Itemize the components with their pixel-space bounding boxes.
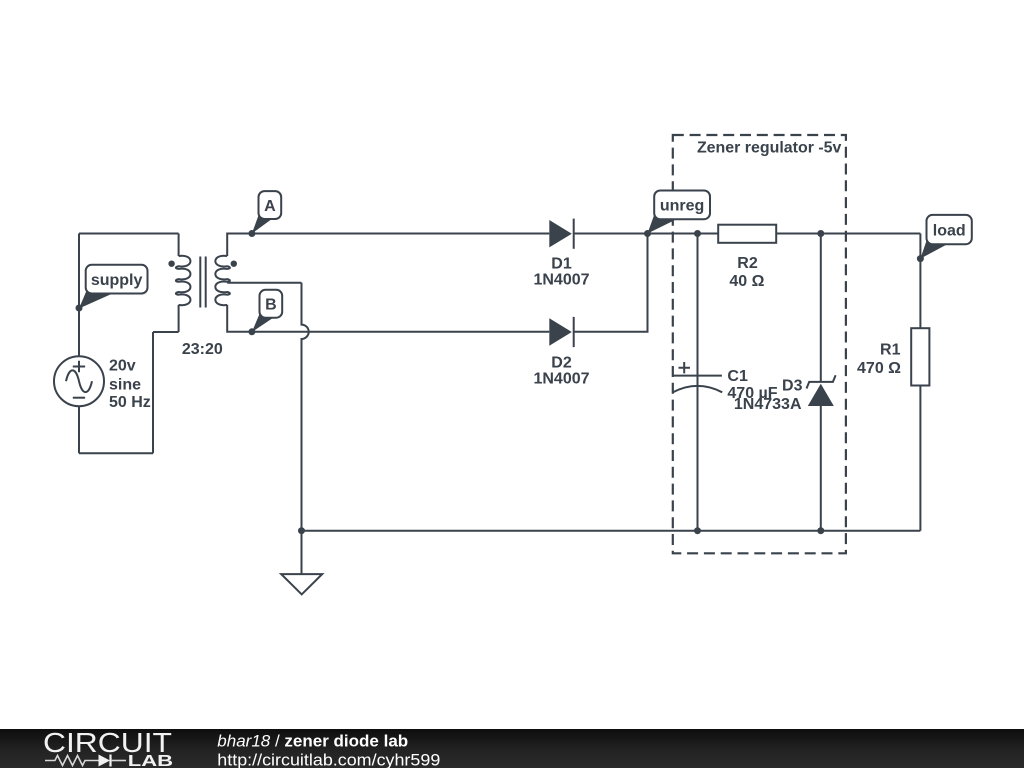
svg-text:D3: D3 — [782, 378, 803, 395]
node load — [917, 215, 972, 262]
diode D2 — [533, 317, 589, 388]
svg-text:R1: R1 — [880, 341, 901, 358]
wire D2 cathode up to unreg — [574, 234, 648, 332]
svg-text:20v: 20v — [109, 357, 136, 374]
wire step vertical — [152, 332, 154, 453]
wire center tap down with hop — [302, 283, 309, 531]
wire D1 cathode to unreg — [574, 233, 648, 235]
footer bar — [0, 727, 1024, 770]
logo diode — [99, 755, 111, 767]
svg-text:1N4007: 1N4007 — [533, 271, 589, 288]
zener diode D3 — [734, 234, 836, 535]
wire supply left lower — [78, 406, 80, 453]
svg-text:unreg: unreg — [660, 198, 704, 215]
svg-text:1N4733A: 1N4733A — [734, 396, 802, 413]
diode D1 — [533, 219, 589, 289]
wire unreg to R2 — [648, 233, 719, 235]
transformer T1 — [168, 234, 237, 359]
svg-text:C1: C1 — [727, 368, 748, 385]
svg-text:1N4007: 1N4007 — [533, 370, 589, 387]
node B — [248, 290, 282, 336]
svg-text:R2: R2 — [737, 255, 758, 272]
phase dot secondary — [231, 261, 237, 267]
svg-text:50 Hz: 50 Hz — [109, 394, 151, 411]
wire secondary top to A — [227, 234, 549, 257]
ground — [281, 527, 322, 594]
junction D3 top — [817, 230, 824, 237]
secondary coil — [215, 256, 230, 305]
node A — [248, 191, 281, 237]
svg-text:load: load — [933, 222, 966, 239]
svg-text:sine: sine — [109, 376, 141, 393]
svg-text:40 Ω: 40 Ω — [729, 273, 764, 290]
wire R2 to corner — [776, 233, 920, 235]
primary top stub — [178, 234, 180, 257]
wire corner down to R1 — [919, 234, 921, 329]
svg-text:supply: supply — [91, 272, 143, 289]
wire bottom rail — [302, 530, 921, 532]
node supply label — [76, 265, 148, 312]
svg-text:http://circuitlab.com/cyhr599: http://circuitlab.com/cyhr599 — [217, 750, 440, 768]
core — [200, 257, 205, 308]
node unreg — [644, 191, 710, 238]
wire supply left upper — [78, 234, 80, 357]
wire R1 bottom — [919, 386, 921, 531]
wire supply bottom — [79, 452, 153, 454]
svg-text:A: A — [264, 198, 276, 215]
svg-text:bhar18 / zener diode lab: bhar18 / zener diode lab — [217, 732, 408, 751]
resistor R2 — [718, 225, 776, 290]
voltage source V1 — [54, 356, 151, 411]
logo resistor zigzag — [45, 756, 99, 766]
capacitor C1 — [673, 234, 778, 535]
svg-text:Zener regulator -5v: Zener regulator -5v — [697, 139, 842, 156]
dashed box Zener regulator — [673, 135, 846, 553]
svg-text:23:20: 23:20 — [182, 341, 223, 358]
svg-text:B: B — [265, 297, 277, 314]
wire secondary bottom to B — [227, 305, 549, 332]
wire center tap — [227, 282, 301, 284]
svg-text:470 Ω: 470 Ω — [857, 360, 901, 377]
wire step horizontal — [153, 331, 179, 333]
resistor R1 — [857, 328, 929, 385]
phase dot primary — [168, 261, 174, 267]
primary bottom stub — [178, 305, 180, 332]
primary coil — [176, 256, 191, 305]
svg-text:LAB: LAB — [128, 753, 173, 768]
svg-text:D1: D1 — [551, 256, 572, 273]
svg-text:D2: D2 — [551, 354, 572, 371]
junction C1 top — [694, 230, 701, 237]
wire supply top — [79, 233, 179, 235]
